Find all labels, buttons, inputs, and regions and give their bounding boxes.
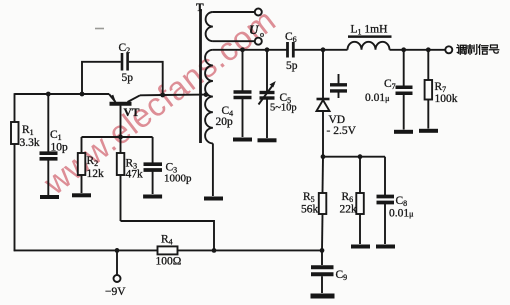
wire: top-left emitter wire y=94 (15, 93, 110, 95)
node C1 top (46, 92, 51, 97)
svg-text:5p: 5p (286, 60, 298, 72)
resistor R5 (319, 157, 327, 251)
svg-text:0.01μ: 0.01μ (365, 92, 389, 104)
resistor R4 (158, 246, 178, 254)
capacitor C9 (311, 250, 334, 293)
svg-text:- 2.5V: - 2.5V (327, 125, 357, 137)
svg-text:U: U (249, 22, 259, 37)
ground (C8) (376, 245, 395, 249)
wire: L1 to output (390, 49, 446, 51)
resistor R6 (356, 157, 364, 244)
node C7 (401, 47, 406, 52)
wire: R3 bottom to -9V rail (121, 221, 215, 250)
svg-text:L1 1mH: L1 1mH (351, 24, 388, 37)
node tap (204, 92, 209, 97)
diode VD (317, 50, 330, 157)
node R5 (321, 154, 326, 159)
node C2 left (80, 92, 85, 97)
wire: left rail upper (14, 93, 16, 122)
node VD (321, 47, 326, 52)
node R6 (358, 154, 363, 159)
svg-text:47k: 47k (126, 169, 144, 181)
ground (R2) (72, 193, 91, 197)
ground (C9) (311, 294, 335, 299)
terminal output (445, 46, 452, 53)
ground (transformer) (204, 197, 223, 201)
resistor R1 (11, 122, 19, 144)
wire: base rail y=137 (82, 136, 153, 138)
transformer primary winding (205, 50, 243, 196)
resistor R2 (78, 137, 86, 193)
transformer T core (199, 9, 202, 143)
capacitor C6 (288, 42, 294, 58)
ground (R6) (351, 245, 370, 249)
terminal Uo top (255, 9, 262, 16)
capacitor C4 (234, 50, 252, 137)
terminal -9V (114, 250, 121, 282)
wire: left rail lower (14, 144, 16, 251)
svg-text:10p: 10p (51, 142, 69, 154)
capacitor C7 (396, 50, 413, 130)
svg-text:22k: 22k (340, 204, 358, 216)
capacitor (VD bypass) (330, 74, 347, 98)
wire: C6 to L1 (295, 49, 348, 51)
svg-text:o: o (260, 30, 264, 39)
capacitor C3 (144, 137, 163, 194)
svg-text:1000p: 1000p (164, 173, 192, 185)
svg-text:−9V: −9V (105, 286, 126, 298)
node R5/rail (320, 248, 325, 253)
node base (118, 135, 123, 140)
svg-text:5p: 5p (122, 72, 134, 84)
scan artifact dash (95, 28, 104, 30)
svg-text:100Ω: 100Ω (156, 256, 182, 268)
transistor VT (109, 94, 140, 137)
ground (C3) (143, 195, 162, 199)
svg-text:0.01μ: 0.01μ (389, 208, 413, 220)
svg-text:VT: VT (124, 107, 140, 119)
node R7 (426, 47, 431, 52)
svg-text:3.3k: 3.3k (20, 137, 40, 149)
resistor R7 (425, 50, 433, 129)
ground (R7) (419, 129, 438, 133)
capacitor C5 variable (259, 50, 276, 138)
wire: bottom rail right (178, 249, 323, 251)
watermark www.elecfans.com (36, 1, 282, 202)
inductor L1 (348, 37, 392, 50)
ground (C1) (40, 195, 59, 199)
ground (C5) (258, 138, 277, 142)
node C5 (265, 47, 270, 52)
node C2 right / collector (160, 93, 165, 98)
resistor R3 (117, 137, 125, 221)
terminal Uo bottom (255, 38, 262, 45)
transformer secondary winding (206, 12, 255, 41)
wire: R5/R6/C8 node rail (323, 156, 385, 158)
ground (C4) (233, 138, 252, 142)
wire: main top rail (243, 49, 287, 51)
capacitor C2 loop (82, 53, 163, 95)
svg-text:20p: 20p (216, 116, 234, 128)
ground (C7) (394, 130, 413, 134)
wire: collector to transformer tap (140, 94, 206, 97)
node R3/rail (212, 248, 217, 253)
node C4 (240, 47, 245, 52)
svg-text:100k: 100k (435, 93, 458, 105)
svg-text:12k: 12k (87, 168, 105, 180)
label 调制信号 (modulated signal) (457, 45, 499, 55)
svg-text:5~10p: 5~10p (270, 103, 297, 114)
node -9V (115, 248, 120, 253)
capacitor C8 (377, 157, 395, 244)
svg-text:56k: 56k (301, 204, 319, 216)
capacitor C1 (40, 94, 58, 195)
svg-text:T: T (196, 2, 204, 14)
wire: bottom rail left (14, 249, 158, 251)
